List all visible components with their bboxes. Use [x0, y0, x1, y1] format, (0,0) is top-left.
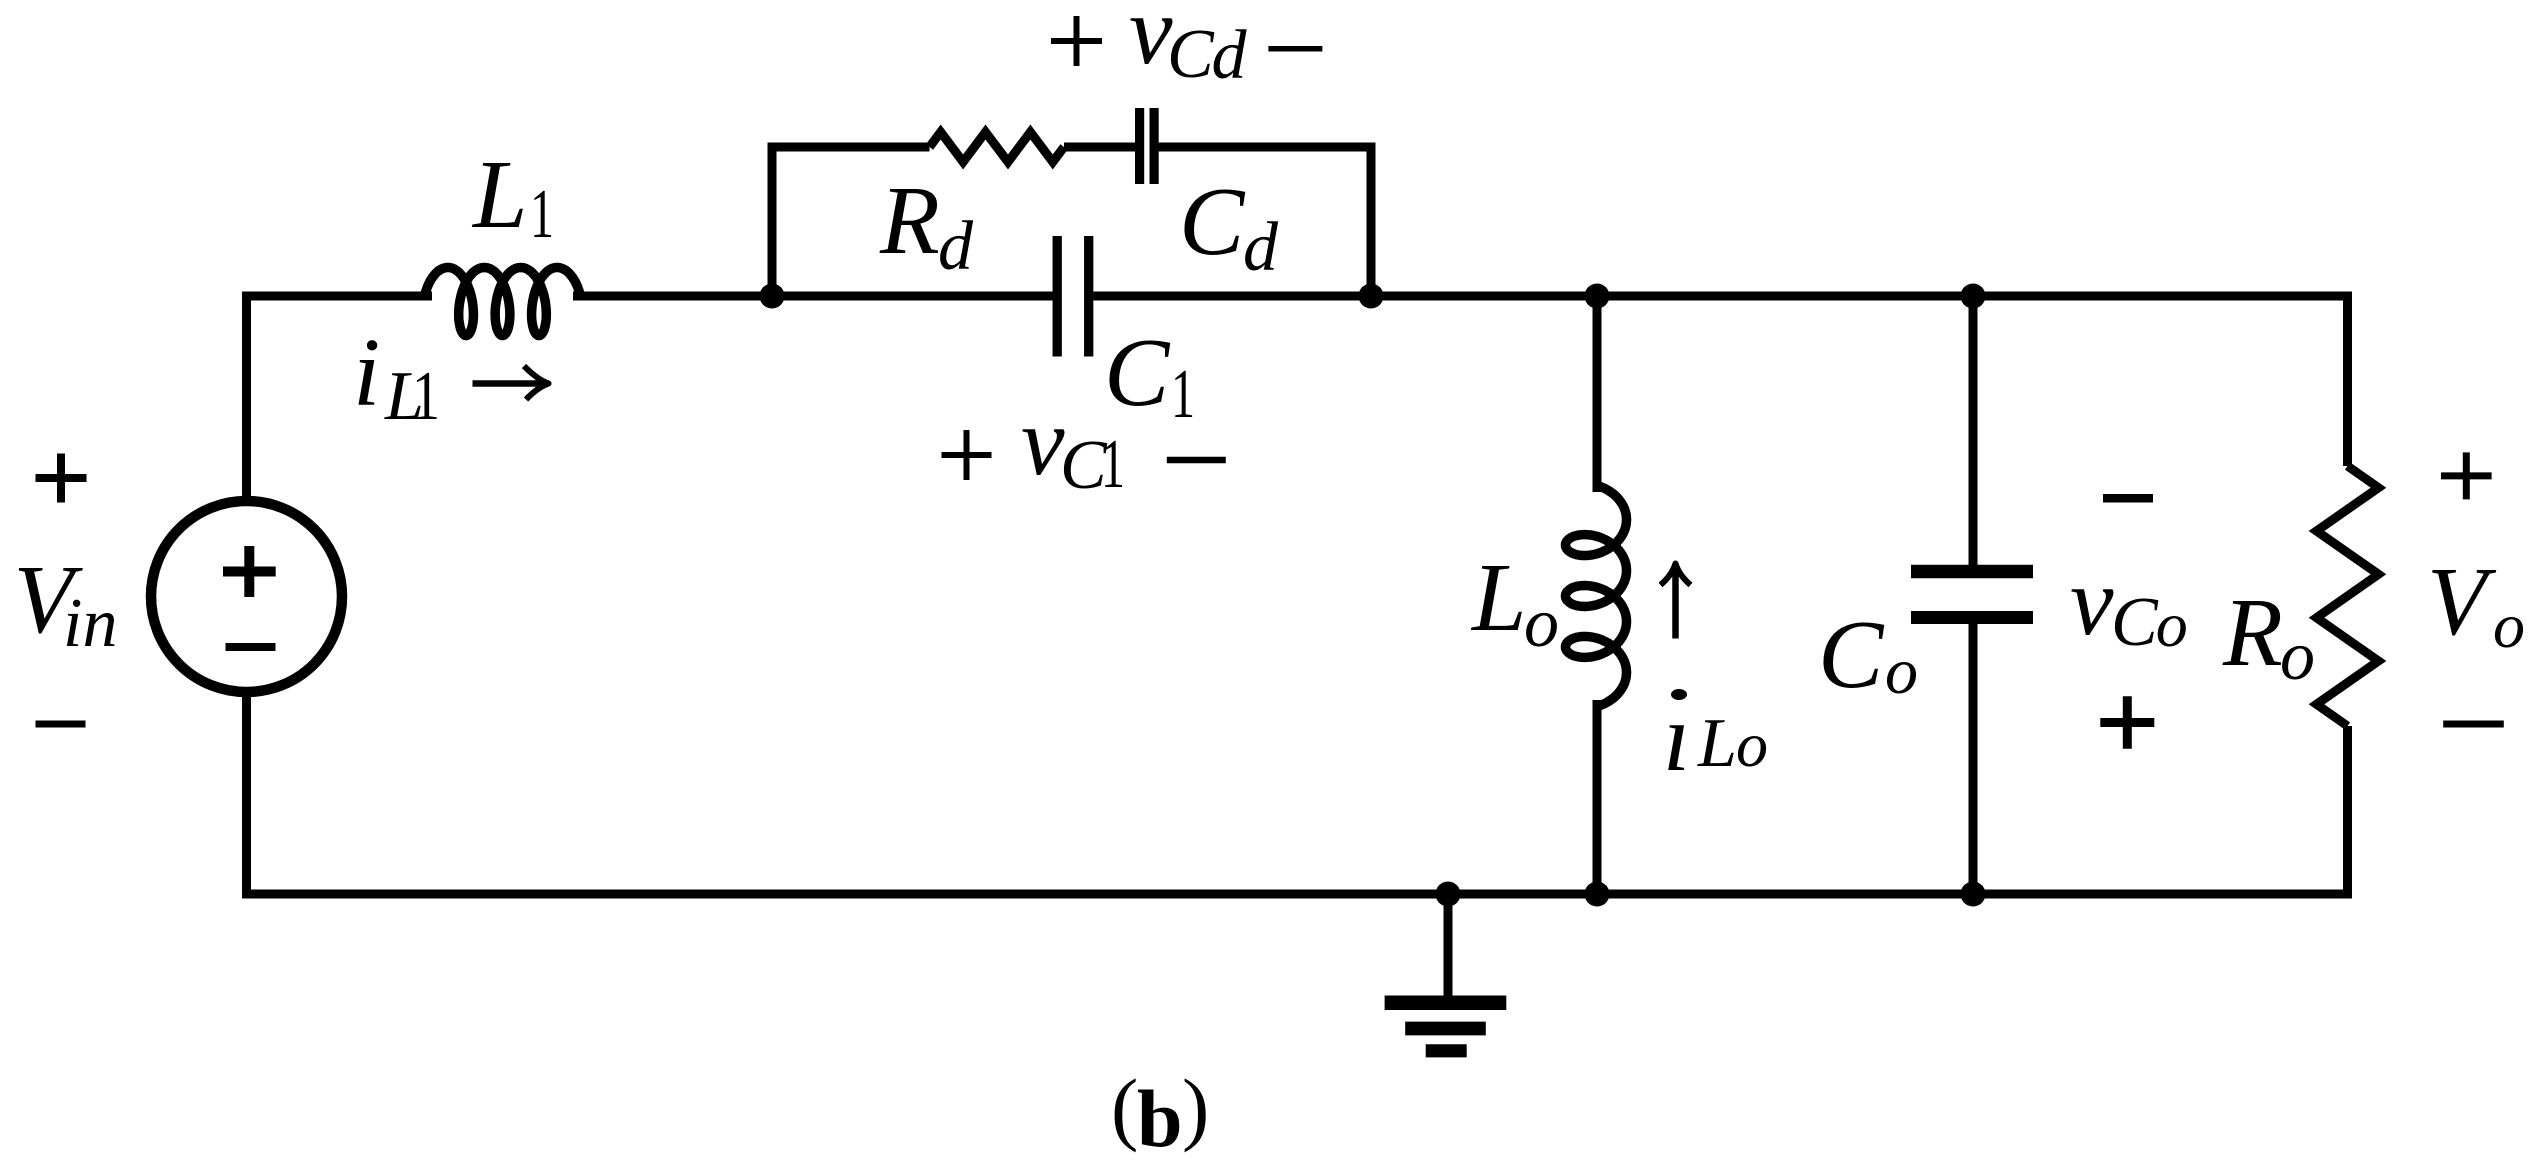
svg-text:1: 1 — [412, 358, 440, 435]
svg-text:R: R — [879, 167, 940, 275]
svg-text:C: C — [2111, 584, 2159, 661]
svg-text:o: o — [1885, 635, 1918, 708]
svg-text:i: i — [353, 319, 380, 427]
svg-text:): ) — [1182, 1062, 1209, 1153]
svg-text:o: o — [2493, 590, 2525, 661]
svg-text:C: C — [1167, 16, 1215, 93]
svg-text:o: o — [1736, 709, 1768, 780]
svg-text:d: d — [1243, 209, 1279, 286]
svg-text:V: V — [2427, 548, 2497, 656]
svg-text:L: L — [1697, 705, 1737, 782]
svg-text:1: 1 — [1101, 426, 1125, 503]
svg-text:in: in — [63, 585, 117, 662]
svg-text:b: b — [1137, 1073, 1183, 1160]
svg-text:o: o — [1524, 585, 1559, 662]
svg-text:C: C — [1818, 601, 1885, 709]
svg-text:(: ( — [1111, 1062, 1138, 1153]
svg-text:1: 1 — [530, 176, 554, 253]
svg-text:o: o — [2156, 589, 2188, 660]
svg-text:1: 1 — [1171, 356, 1195, 433]
svg-text:R: R — [2222, 579, 2283, 687]
svg-text:v: v — [1021, 388, 1065, 496]
svg-text:C: C — [1179, 168, 1246, 276]
svg-text:L: L — [1470, 544, 1527, 652]
svg-text:C: C — [1104, 319, 1171, 427]
svg-text:o: o — [2280, 618, 2315, 695]
svg-text:ı: ı — [1663, 684, 1690, 792]
svg-text:v: v — [2070, 548, 2114, 656]
svg-text:L: L — [471, 141, 528, 249]
svg-text:d: d — [938, 208, 974, 285]
svg-text:d: d — [1212, 17, 1248, 94]
